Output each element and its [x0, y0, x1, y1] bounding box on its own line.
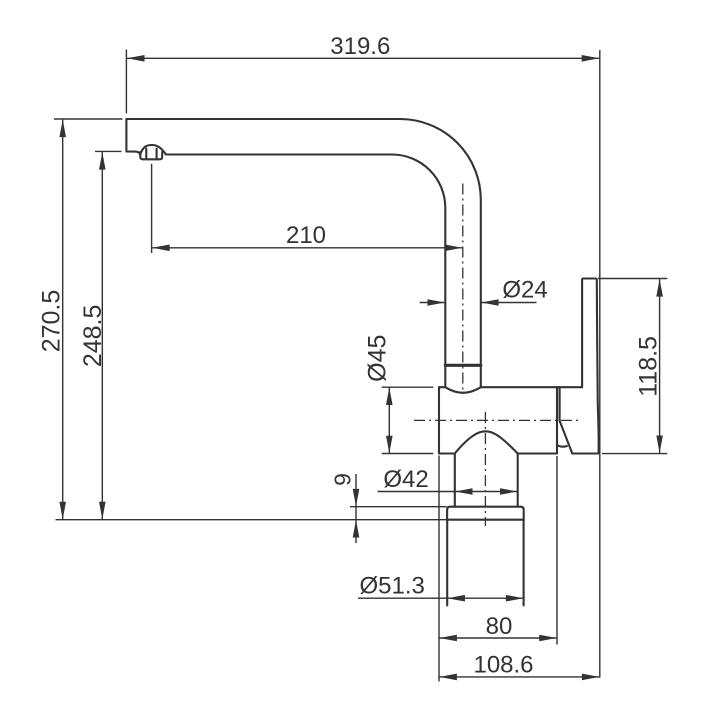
- handle connector upper line: [559, 387, 561, 421]
- dim line 108.6: [439, 676, 599, 678]
- ext line 210: [151, 164, 153, 253]
- svg-text:80: 80: [486, 613, 513, 640]
- arrow O45 bottom: [386, 436, 393, 454]
- dim line O24 right: [481, 302, 536, 304]
- neck left edge: [454, 454, 456, 507]
- arrow 108.6 right: [582, 674, 600, 681]
- ext line 118.5 bottom: [602, 453, 667, 455]
- arrow 9 bottom: [353, 520, 360, 538]
- handle lever left edge: [582, 279, 583, 388]
- arrow O42 left: [455, 488, 473, 495]
- body bottom edge left part: [439, 452, 455, 454]
- arrow O24 right: [481, 299, 499, 306]
- body horizontal center line: [414, 419, 582, 421]
- svg-text:210: 210: [286, 222, 326, 249]
- arrow 270.5 top: [59, 120, 66, 138]
- ext line 118.5 top: [598, 278, 667, 280]
- pipe center line: [462, 184, 464, 391]
- handle lever top and right edge: [583, 279, 598, 454]
- pipe joint line: [445, 364, 481, 367]
- cone transition: [455, 431, 518, 453]
- aerator inner line right: [156, 149, 158, 160]
- ext line 80 right: [556, 456, 558, 645]
- dim line 248.5: [101, 152, 103, 519]
- aerator housing: [140, 152, 162, 160]
- svg-text:118.5: 118.5: [634, 336, 662, 397]
- arrow 270.5 bottom: [59, 502, 66, 520]
- pipe-body saddle curve: [445, 387, 481, 393]
- dim line 9: [355, 474, 357, 543]
- arrow 9 top: [353, 489, 360, 507]
- dim line 80: [439, 637, 556, 639]
- dimension texts: [37, 33, 662, 678]
- mounting surface line: [56, 519, 448, 521]
- center lines: [414, 184, 582, 527]
- spout bottom edge with inner bend: [167, 155, 445, 388]
- lower vertical center line: [484, 412, 486, 526]
- faucet outline: [126, 119, 598, 606]
- arrowheads: [59, 55, 663, 680]
- dim line 270.5: [62, 120, 64, 520]
- handle connector slant: [560, 421, 573, 454]
- body top edge left of pipe: [439, 386, 445, 388]
- arrow 108.6 left: [439, 674, 457, 681]
- arrow O24 left: [428, 299, 446, 306]
- ext line O45 top: [382, 386, 434, 388]
- spout tip end cap: [125, 119, 127, 152]
- svg-text:Ø24: Ø24: [502, 277, 547, 304]
- shank left edge: [446, 520, 448, 606]
- svg-text:319.6: 319.6: [330, 33, 390, 60]
- dim line O24 left: [420, 302, 445, 304]
- arrow 248.5 top: [99, 152, 106, 170]
- arrow 118.5 bottom: [656, 436, 663, 454]
- dim line 210: [152, 247, 462, 249]
- arrow O51.3 right: [506, 595, 524, 602]
- body right end cap: [556, 387, 558, 453]
- svg-text:9: 9: [330, 473, 356, 486]
- dim line O42: [378, 491, 518, 493]
- aerator inner line left: [145, 149, 147, 160]
- arrow 210 right: [445, 245, 463, 252]
- arrow O42 right: [500, 488, 518, 495]
- arrow 118.5 top: [656, 279, 663, 297]
- arrow O45 top: [386, 388, 393, 406]
- spout tip bottom segment: [126, 152, 140, 155]
- ext line left of 319.6: [125, 50, 127, 114]
- handle connector arc: [557, 445, 567, 446]
- svg-text:Ø51.3: Ø51.3: [360, 573, 425, 600]
- ext line 80 left: [438, 456, 440, 682]
- arrow 80 right: [539, 635, 557, 642]
- svg-text:Ø42: Ø42: [383, 466, 428, 493]
- ext line 9 top: [350, 506, 447, 508]
- ext line O45 bottom: [382, 453, 434, 455]
- svg-text:270.5: 270.5: [37, 290, 65, 353]
- ext line 270.5 top: [54, 118, 122, 120]
- handle bottom edge: [572, 452, 598, 454]
- ext line 248.5 top: [95, 150, 122, 152]
- arrow 210 left: [152, 245, 170, 252]
- spout top edge with outer bend: [126, 119, 480, 387]
- arrow 248.5 bottom: [99, 502, 106, 520]
- arrow 319.6 left: [127, 55, 145, 62]
- ext line right shared: [599, 50, 601, 678]
- neck right edge: [517, 454, 519, 507]
- body left edge: [438, 387, 440, 453]
- base plate: [447, 507, 524, 520]
- body bottom edge right part: [518, 452, 557, 454]
- dimensions: [54, 50, 667, 682]
- arrow 80 left: [439, 635, 457, 642]
- svg-text:Ø45: Ø45: [364, 335, 392, 382]
- arrow O51.3 left: [447, 595, 465, 602]
- arrow 319.6 right: [582, 55, 600, 62]
- dim line 319.6: [127, 57, 599, 59]
- dim line O45: [388, 388, 390, 454]
- svg-text:248.5: 248.5: [79, 305, 107, 368]
- aerator dome: [140, 145, 166, 155]
- shank right edge: [523, 520, 525, 606]
- body top edge right of pipe: [481, 386, 582, 388]
- dim line 118.5: [659, 279, 661, 453]
- svg-text:108.6: 108.6: [473, 651, 533, 678]
- dim line O51.3: [358, 597, 523, 599]
